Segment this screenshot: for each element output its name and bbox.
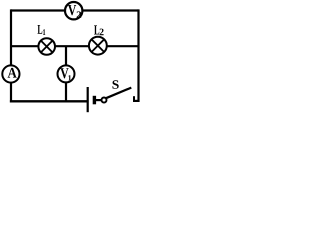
label S bbox=[112, 80, 118, 88]
lamp L2 bbox=[89, 37, 107, 55]
wire V1 branch bbox=[65, 46, 67, 101]
battery long plate bbox=[87, 87, 89, 112]
wire bottom left bbox=[10, 100, 88, 102]
battery short plate bbox=[93, 96, 96, 105]
switch S pivot bbox=[102, 98, 107, 103]
label L2 bbox=[94, 25, 99, 34]
switch fixed contact hook bbox=[133, 96, 135, 102]
wire lamp rail bbox=[11, 45, 139, 47]
wire bottom right stub bbox=[133, 100, 139, 102]
voltmeter V2 bbox=[65, 2, 82, 19]
lamp L1 bbox=[38, 38, 55, 55]
ammeter A bbox=[2, 65, 19, 82]
wire left rail bbox=[10, 9, 12, 102]
voltmeter V1 bbox=[58, 65, 75, 82]
switch S lever bbox=[106, 88, 131, 99]
label L1 bbox=[37, 25, 42, 34]
wire top rail bbox=[11, 9, 139, 11]
wire battery to switch bbox=[96, 99, 102, 101]
wire right rail bbox=[137, 9, 139, 102]
